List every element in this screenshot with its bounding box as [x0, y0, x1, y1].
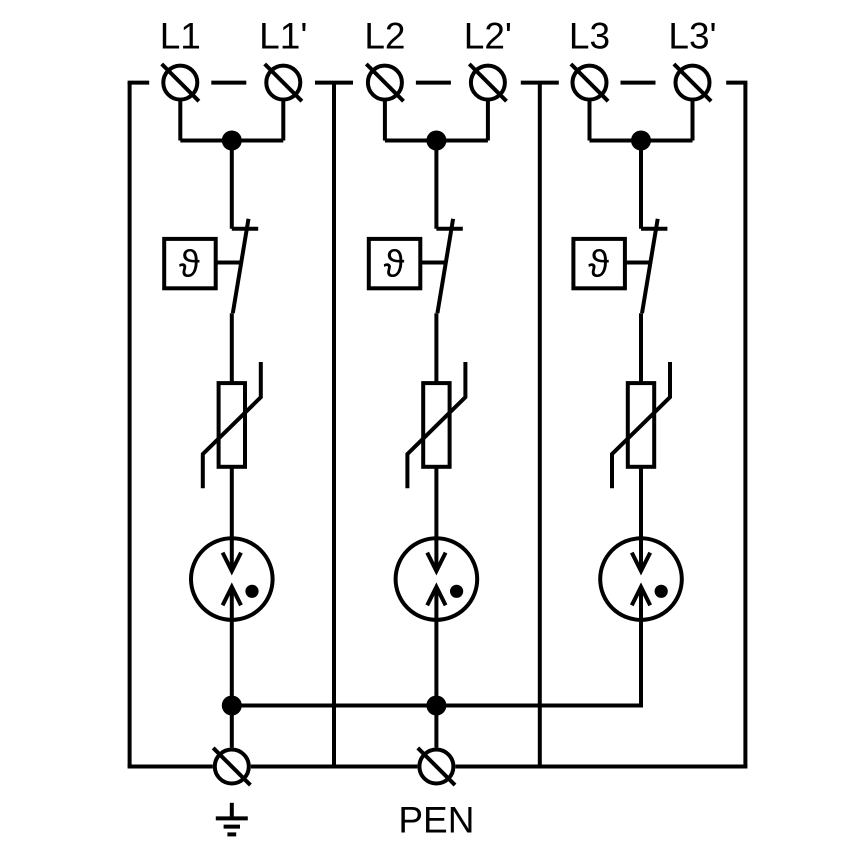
svg-text:L1': L1': [259, 16, 307, 57]
svg-text:L1: L1: [160, 16, 201, 57]
svg-text:L2: L2: [364, 16, 405, 57]
svg-text:ϑ: ϑ: [384, 244, 405, 286]
svg-text:ϑ: ϑ: [588, 244, 609, 286]
svg-text:L2': L2': [464, 16, 512, 57]
svg-text:ϑ: ϑ: [179, 244, 200, 286]
svg-text:L3: L3: [569, 16, 610, 57]
svg-text:L3': L3': [668, 16, 716, 57]
svg-text:PEN: PEN: [398, 800, 474, 841]
